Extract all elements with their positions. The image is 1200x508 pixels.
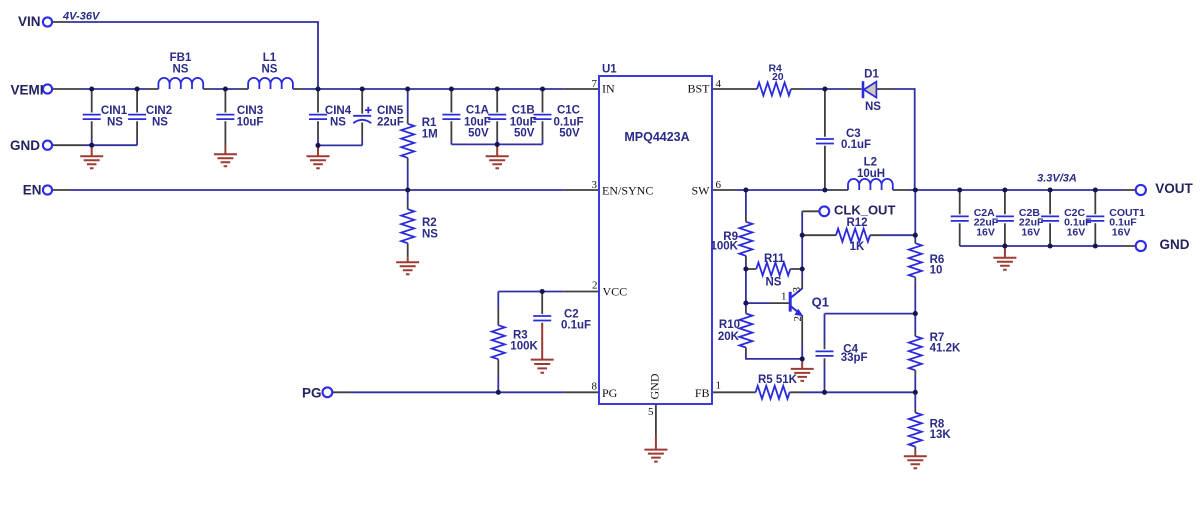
svg-text:16V: 16V [1021, 226, 1040, 238]
svg-text:IN: IN [602, 82, 615, 96]
svg-text:1: 1 [781, 291, 787, 303]
svg-text:NS: NS [262, 63, 278, 75]
svg-text:EN/SYNC: EN/SYNC [602, 183, 653, 197]
svg-text:SW: SW [692, 183, 711, 197]
svg-text:CIN2: CIN2 [146, 105, 172, 117]
svg-text:PG: PG [602, 386, 618, 400]
svg-text:5: 5 [648, 406, 654, 418]
svg-text:10uH: 10uH [857, 168, 885, 180]
svg-text:R12: R12 [846, 217, 867, 229]
svg-text:50V: 50V [468, 127, 489, 139]
svg-text:16V: 16V [1112, 226, 1131, 238]
svg-text:1M: 1M [422, 128, 438, 140]
svg-text:3.3V/3A: 3.3V/3A [1037, 173, 1077, 185]
svg-text:6: 6 [716, 179, 722, 191]
svg-text:NS: NS [422, 229, 438, 241]
svg-text:16V: 16V [1067, 226, 1086, 238]
svg-text:41.2K: 41.2K [930, 343, 961, 355]
svg-text:0.1uF: 0.1uF [841, 139, 871, 151]
svg-text:2: 2 [792, 316, 804, 322]
svg-text:CIN5: CIN5 [377, 105, 404, 117]
svg-text:20: 20 [772, 71, 784, 83]
svg-text:10uF: 10uF [237, 117, 264, 129]
svg-text:R10: R10 [719, 319, 740, 331]
svg-text:Q1: Q1 [812, 295, 829, 310]
svg-text:10: 10 [930, 264, 943, 276]
svg-text:20K: 20K [718, 331, 740, 343]
svg-text:13K: 13K [930, 429, 952, 441]
svg-text:1: 1 [716, 380, 722, 392]
svg-text:0.1uF: 0.1uF [561, 319, 591, 331]
svg-text:NS: NS [330, 117, 346, 129]
svg-text:MPQ4423A: MPQ4423A [624, 130, 689, 144]
svg-text:22uF: 22uF [377, 117, 404, 129]
svg-text:50V: 50V [514, 127, 535, 139]
svg-text:BST: BST [687, 82, 710, 96]
svg-text:U1: U1 [602, 64, 617, 76]
svg-text:FB1: FB1 [170, 52, 192, 64]
svg-text:NS: NS [107, 117, 123, 129]
svg-text:7: 7 [592, 78, 598, 90]
svg-text:CIN3: CIN3 [237, 105, 263, 117]
svg-text:R1: R1 [422, 117, 437, 129]
svg-text:NS: NS [173, 63, 189, 75]
svg-text:C1B: C1B [512, 105, 535, 117]
svg-text:R2: R2 [422, 217, 437, 229]
svg-text:GND: GND [1160, 237, 1190, 252]
svg-text:3: 3 [791, 287, 803, 293]
svg-text:16V: 16V [976, 226, 995, 238]
svg-text:8: 8 [592, 381, 598, 393]
svg-text:CIN1: CIN1 [101, 105, 128, 117]
svg-text:50V: 50V [559, 127, 580, 139]
svg-text:EN: EN [23, 183, 42, 198]
svg-text:D1: D1 [864, 69, 879, 81]
svg-text:33pF: 33pF [841, 352, 868, 364]
svg-text:VCC: VCC [603, 284, 628, 298]
svg-text:GND: GND [648, 373, 662, 399]
svg-text:VIN: VIN [18, 14, 41, 29]
svg-text:VOUT: VOUT [1155, 181, 1193, 196]
svg-text:R5 51K: R5 51K [758, 374, 798, 386]
svg-text:CIN4: CIN4 [325, 105, 352, 117]
svg-text:100K: 100K [510, 340, 538, 352]
svg-text:C3: C3 [846, 128, 861, 140]
svg-text:R11: R11 [764, 253, 785, 265]
svg-text:4: 4 [716, 78, 722, 90]
svg-text:3: 3 [592, 179, 598, 191]
svg-text:100K: 100K [711, 241, 739, 253]
svg-text:L1: L1 [263, 52, 277, 64]
svg-text:2: 2 [592, 280, 598, 292]
svg-text:NS: NS [865, 101, 881, 113]
svg-text:PG: PG [302, 385, 322, 400]
svg-text:1K: 1K [850, 241, 865, 253]
svg-text:FB: FB [695, 386, 710, 400]
svg-text:VEMI: VEMI [10, 83, 43, 98]
svg-text:NS: NS [152, 117, 168, 129]
svg-text:4V-36V: 4V-36V [62, 11, 101, 23]
svg-text:GND: GND [10, 138, 40, 153]
svg-text:C1C: C1C [557, 105, 580, 117]
svg-text:NS: NS [766, 277, 782, 289]
svg-text:C1A: C1A [466, 105, 489, 117]
svg-text:CLK_OUT: CLK_OUT [834, 203, 895, 218]
svg-text:L2: L2 [864, 157, 877, 169]
